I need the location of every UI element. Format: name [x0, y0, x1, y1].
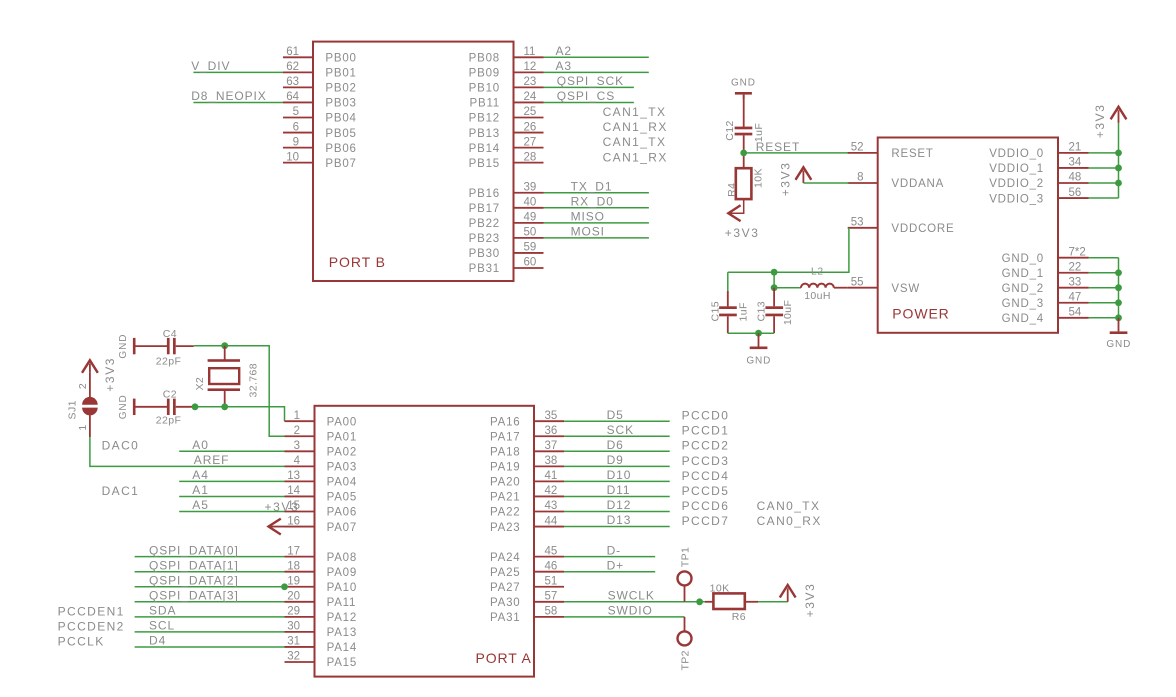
svg-text:+3V3: +3V3 [1093, 104, 1107, 139]
svg-text:CAN1_TX: CAN1_TX [603, 135, 667, 149]
svg-text:GND: GND [731, 77, 756, 88]
svg-text:C13: C13 [756, 301, 768, 321]
pin 60 PB31 (PORT B right lower) [514, 267, 544, 269]
svg-text:58: 58 [545, 606, 558, 618]
svg-text:18: 18 [287, 560, 300, 572]
svg-text:PA25: PA25 [490, 567, 520, 579]
svg-text:31: 31 [287, 636, 300, 648]
wire R4 to +3V3 [730, 199, 744, 213]
svg-text:GND_1: GND_1 [1002, 268, 1044, 280]
svg-text:VDDIO_2: VDDIO_2 [989, 178, 1044, 190]
wire net D9 [564, 465, 670, 467]
pin 39 PB16 (PORT B right lower) [514, 192, 544, 194]
svg-text:1uF: 1uF [737, 302, 749, 321]
svg-text:GND: GND [1106, 339, 1131, 350]
svg-text:CAN0_RX: CAN0_RX [757, 514, 822, 528]
svg-text:GND_4: GND_4 [1002, 313, 1044, 325]
wire to R6 [705, 601, 713, 603]
wire net QSPI_DATA[0] [135, 556, 285, 558]
wire VDDCORE net: pin 53 down and left to caps [728, 228, 849, 272]
pin 36 PA17 (PORT A right) [534, 435, 564, 437]
svg-text:PA14: PA14 [327, 642, 357, 654]
supply +3V3 arrow right of R6 [780, 585, 796, 598]
svg-text:VDDIO_3: VDDIO_3 [989, 193, 1044, 205]
svg-text:SDA: SDA [149, 603, 176, 617]
wire VDDIO_2 to +3V3 rail [1089, 182, 1119, 184]
svg-text:62: 62 [286, 61, 299, 73]
wire net V_DIV to PB01 [193, 71, 283, 73]
svg-text:GND: GND [118, 334, 129, 359]
svg-text:D11: D11 [607, 483, 631, 497]
wire net D+ from PA25 [564, 571, 655, 573]
svg-text:PB02: PB02 [325, 83, 356, 95]
test point TP1 [678, 571, 692, 585]
pin 2 PA01 (PORT A left) [285, 435, 315, 437]
svg-text:PCCD2: PCCD2 [682, 439, 730, 453]
wire net A1 [179, 495, 284, 497]
svg-text:59: 59 [524, 242, 537, 254]
svg-text:PB08: PB08 [469, 53, 500, 65]
svg-text:DAC1: DAC1 [102, 484, 140, 498]
junction crystal top [221, 342, 228, 349]
wire net A4 [179, 480, 284, 482]
svg-text:POWER: POWER [892, 306, 949, 322]
svg-text:+3V3: +3V3 [803, 583, 817, 618]
svg-text:42: 42 [545, 485, 558, 497]
svg-text:D10: D10 [607, 468, 632, 482]
svg-text:PA20: PA20 [490, 477, 520, 489]
pin 29 PA12 (PORT A left) [285, 616, 315, 618]
pin 54 GND_4 (POWER right) [1058, 317, 1089, 319]
svg-text:PA03: PA03 [327, 462, 357, 474]
svg-text:20: 20 [287, 591, 300, 603]
svg-text:32.768: 32.768 [248, 363, 260, 398]
svg-text:45: 45 [545, 545, 558, 557]
svg-text:55: 55 [851, 276, 864, 288]
pin 53 VDDCORE (POWER left) [848, 227, 878, 229]
IC U1 POWER block body [878, 138, 1058, 333]
pin 64 PB03 (PORT B left) [283, 101, 313, 103]
crystal X2 32.768 [224, 346, 226, 360]
svg-text:54: 54 [1069, 307, 1082, 319]
svg-text:37: 37 [545, 440, 558, 452]
pin 61 PB00 (PORT B left) [283, 56, 313, 58]
svg-text:PB15: PB15 [469, 158, 500, 170]
wire GND rail down GND_0..GND_4 [1118, 258, 1120, 318]
wire net QSPI_DATA[3] [135, 601, 285, 603]
svg-text:25: 25 [524, 106, 537, 118]
wire VDDIO_1 to +3V3 rail [1089, 167, 1119, 169]
pin 59 PB30 (PORT B right lower) [514, 252, 544, 254]
svg-text:V_DIV: V_DIV [191, 59, 230, 73]
wire net SWDIO from PA31 to TP2 [564, 616, 685, 618]
svg-text:PA13: PA13 [327, 627, 357, 639]
pin 41 PA20 (PORT A right) [534, 480, 564, 482]
wire node down to VSW row [773, 272, 775, 288]
svg-text:PA00: PA00 [327, 416, 357, 428]
wire GND rail between C15 and C13 [728, 332, 774, 334]
svg-text:PB07: PB07 [325, 158, 356, 170]
svg-text:QSPI_DATA[0]: QSPI_DATA[0] [149, 543, 239, 557]
svg-text:PORT B: PORT B [329, 254, 386, 270]
pin 23 PB10 (PORT B right) [514, 86, 544, 88]
wire GND to C12 [743, 95, 745, 127]
inductor L2 10uH [801, 284, 834, 288]
svg-text:+3V3: +3V3 [725, 226, 760, 240]
svg-text:MISO: MISO [571, 209, 605, 223]
wire VDDIO_0 to +3V3 rail [1089, 152, 1119, 154]
supply +3V3 arrow above VDDANA [796, 167, 812, 180]
svg-text:+3V3: +3V3 [779, 162, 793, 197]
svg-text:28: 28 [524, 151, 537, 163]
wire net D12 [564, 511, 670, 513]
pin 48 VDDIO_2 (POWER right) [1058, 182, 1089, 184]
wire net D5 [564, 420, 670, 422]
svg-text:R4: R4 [726, 183, 738, 197]
pin 5 PB04 (PORT B left) [283, 117, 313, 119]
svg-text:TP1: TP1 [680, 547, 692, 567]
pin 1 PA00 (PORT A left) [285, 420, 315, 422]
pin 33 GND_2 (POWER right) [1058, 287, 1089, 289]
wire net MOSI from PB23 [544, 237, 649, 239]
pin 15 PA06 (PORT A left) [285, 511, 315, 513]
svg-text:46: 46 [545, 560, 558, 572]
pin 14 PA05 (PORT A left) [285, 495, 315, 497]
svg-text:PB09: PB09 [469, 68, 500, 80]
pin 17 PA08 (PORT A left) [285, 556, 315, 558]
pin 45 PA24 (PORT A right) [534, 556, 564, 558]
wire GND_3 to GND rail [1089, 302, 1119, 304]
wire net D6 [564, 450, 670, 452]
svg-text:22pF: 22pF [156, 355, 182, 367]
svg-text:PB13: PB13 [469, 128, 500, 140]
svg-text:41: 41 [545, 470, 558, 482]
svg-text:PA11: PA11 [327, 597, 357, 609]
svg-text:57: 57 [545, 591, 558, 603]
wire GND_2 to GND rail [1089, 287, 1119, 289]
wire net TX_D1 from PB16 [544, 192, 649, 194]
pin 9 PB06 (PORT B left) [283, 147, 313, 149]
wire net D- from PA24 [564, 556, 655, 558]
svg-text:QSPI_DATA[1]: QSPI_DATA[1] [149, 558, 239, 572]
pin 18 PA09 (PORT A left) [285, 571, 315, 573]
svg-text:19: 19 [287, 575, 300, 587]
pin 24 PB11 (PORT B right) [514, 101, 544, 103]
svg-text:PB22: PB22 [469, 218, 500, 230]
IC U1 PORT B block body [313, 42, 514, 281]
svg-text:PORT A: PORT A [476, 650, 532, 666]
pin 49 PB22 (PORT B right lower) [514, 222, 544, 224]
junction at VSW row [771, 284, 778, 291]
svg-text:D4: D4 [149, 634, 166, 648]
junction on +3V3 rail [1115, 150, 1122, 157]
svg-text:PB10: PB10 [469, 83, 500, 95]
svg-text:A5: A5 [192, 498, 208, 512]
svg-text:PCCD1: PCCD1 [682, 424, 730, 438]
junction on GND rail [1115, 284, 1122, 291]
svg-text:CAN1_RX: CAN1_RX [603, 150, 668, 164]
svg-text:PB01: PB01 [325, 68, 356, 80]
svg-text:RESET: RESET [756, 140, 801, 154]
svg-text:32: 32 [287, 651, 300, 663]
svg-text:PB23: PB23 [469, 233, 500, 245]
junction on +3V3 rail [1115, 165, 1122, 172]
svg-text:10uH: 10uH [804, 290, 831, 302]
wire net QSPI_DATA[2] [135, 586, 285, 588]
wire GND to C2 [136, 406, 168, 408]
svg-text:VSW: VSW [891, 283, 920, 295]
junction crystal bottom [221, 403, 228, 410]
pin 6 PB05 (PORT B left) [283, 132, 313, 134]
svg-text:SWDIO: SWDIO [608, 603, 653, 617]
svg-text:GND_3: GND_3 [1002, 298, 1044, 310]
wire GND_0 to GND rail [1089, 257, 1119, 259]
solder jumper SJ1 [82, 397, 98, 405]
svg-text:PB04: PB04 [325, 113, 356, 125]
svg-text:PA24: PA24 [490, 552, 520, 564]
wire net D10 [564, 480, 670, 482]
svg-text:56: 56 [1069, 187, 1082, 199]
svg-text:A0: A0 [192, 438, 208, 452]
svg-text:44: 44 [545, 515, 558, 527]
svg-text:PA06: PA06 [327, 507, 357, 519]
svg-text:47: 47 [1069, 291, 1082, 303]
svg-text:PA10: PA10 [327, 582, 357, 594]
pin 42 PA21 (PORT A right) [534, 495, 564, 497]
svg-text:38: 38 [545, 455, 558, 467]
capacitor C13 10uF [773, 288, 775, 307]
svg-text:D6: D6 [607, 438, 624, 452]
svg-text:PCCD3: PCCD3 [682, 454, 730, 468]
wire net D11 [564, 495, 670, 497]
svg-text:D5: D5 [607, 408, 624, 422]
pin 27 PB14 (PORT B right) [514, 147, 544, 149]
pin 25 PB12 (PORT B right) [514, 117, 544, 119]
pin 3 PA02 (PORT A left) [285, 450, 315, 452]
wire net A3 from PB09 [544, 71, 649, 73]
svg-text:48: 48 [1069, 172, 1082, 184]
svg-text:D12: D12 [607, 498, 632, 512]
svg-text:PA05: PA05 [327, 492, 357, 504]
wire net SCL [135, 631, 285, 633]
capacitor C15 1uF [727, 272, 729, 306]
wire net A0 [179, 450, 284, 452]
svg-text:64: 64 [286, 91, 299, 103]
svg-text:A2: A2 [556, 44, 572, 58]
junction node RESET [740, 150, 747, 157]
pin 4 PA03 (PORT A left) [285, 465, 315, 467]
svg-text:PCCDEN2: PCCDEN2 [58, 619, 125, 633]
svg-text:21: 21 [1069, 142, 1082, 154]
pin 47 GND_3 (POWER right) [1058, 302, 1089, 304]
junction SWCLK node [696, 598, 703, 605]
supply +3V3 (left arrow) below R4 [728, 205, 740, 221]
svg-text:PCCDEN1: PCCDEN1 [58, 604, 125, 618]
pin 21 VDDIO_0 (POWER right) [1058, 152, 1089, 154]
wire net QSPI_CS from PB011 [544, 101, 634, 103]
wire GND to C4 [136, 345, 168, 347]
svg-text:10: 10 [286, 151, 299, 163]
svg-text:C12: C12 [724, 120, 736, 140]
svg-text:7*2: 7*2 [1069, 246, 1086, 258]
wire +3V3 to SJ1 pin 2 [89, 373, 91, 398]
svg-text:PB31: PB31 [469, 263, 500, 275]
svg-text:22pF: 22pF [156, 414, 182, 426]
svg-text:PCCD6: PCCD6 [682, 499, 730, 513]
svg-text:53: 53 [851, 217, 864, 229]
svg-text:29: 29 [287, 606, 300, 618]
svg-text:52: 52 [851, 142, 864, 154]
svg-text:PB03: PB03 [325, 98, 356, 110]
wire +3V3 rail down VDDIO_0..VDDIO_3 [1118, 123, 1120, 198]
wire GND_4 to GND rail [1089, 317, 1119, 319]
svg-text:PCCD4: PCCD4 [682, 469, 730, 483]
svg-text:CAN0_TX: CAN0_TX [757, 499, 821, 513]
pin 11 PB08 (PORT B right) [514, 56, 544, 58]
svg-text:51: 51 [545, 575, 558, 587]
svg-text:39: 39 [524, 181, 537, 193]
svg-text:27: 27 [524, 136, 537, 148]
svg-text:PA27: PA27 [490, 582, 520, 594]
svg-text:PCCD7: PCCD7 [682, 514, 730, 528]
pin 10 PB07 (PORT B left) [283, 162, 313, 164]
pin 52 RESET (POWER left) [848, 152, 878, 154]
svg-text:PA15: PA15 [327, 657, 357, 669]
wire C2 to crystal bottom node [176, 406, 194, 408]
svg-text:2: 2 [77, 383, 89, 389]
GND symbol below caps [758, 333, 760, 346]
svg-text:PB30: PB30 [469, 248, 500, 260]
svg-text:CAN1_RX: CAN1_RX [603, 120, 668, 134]
wire GND_1 to GND rail [1089, 272, 1119, 274]
capacitor C4 22pF [167, 338, 170, 354]
svg-text:TP2: TP2 [680, 650, 692, 670]
pin 44 PA23 (PORT A right) [534, 526, 564, 528]
svg-text:D9: D9 [607, 453, 624, 467]
pin 46 PA25 (PORT A right) [534, 571, 564, 573]
svg-text:GND_2: GND_2 [1002, 283, 1044, 295]
svg-text:SCL: SCL [149, 619, 175, 633]
svg-text:PA18: PA18 [490, 447, 520, 459]
svg-text:63: 63 [286, 76, 299, 88]
pin 26 PB13 (PORT B right) [514, 132, 544, 134]
pin 50 PB23 (PORT B right lower) [514, 237, 544, 239]
GND symbol left of C2 [133, 399, 136, 415]
wire C4 to crystal top node [176, 345, 194, 347]
svg-text:+3V3: +3V3 [265, 500, 300, 514]
wire L2 to POWER pin 55 VSW [834, 287, 848, 289]
svg-text:33: 33 [1069, 276, 1082, 288]
wire net MISO from PB22 [544, 222, 649, 224]
svg-text:D8_NEOPIX: D8_NEOPIX [191, 89, 266, 103]
svg-text:L2: L2 [811, 267, 824, 278]
pin 56 VDDIO_3 (POWER right) [1058, 197, 1089, 199]
svg-text:13: 13 [287, 470, 300, 482]
svg-text:40: 40 [524, 197, 537, 209]
svg-text:PCCD0: PCCD0 [682, 409, 730, 423]
supply +3V3 arrow above SJ1 [82, 360, 98, 373]
GND symbol above C12 [743, 95, 745, 99]
svg-text:61: 61 [286, 46, 299, 58]
pin 57 PA30 (PORT A right) [534, 601, 564, 603]
wire net QSPI_SCK from PB010 [544, 86, 634, 88]
svg-text:17: 17 [287, 545, 300, 557]
svg-text:VDDIO_1: VDDIO_1 [989, 163, 1044, 175]
svg-text:VDDIO_0: VDDIO_0 [989, 148, 1044, 160]
svg-text:10uF: 10uF [782, 300, 794, 326]
svg-text:1: 1 [294, 410, 300, 422]
junction GND tap [755, 330, 762, 337]
wire net XIN: crystal bottom to PA00 [194, 407, 285, 421]
svg-text:8: 8 [857, 172, 863, 184]
svg-text:D-: D- [607, 543, 621, 557]
svg-text:PA04: PA04 [327, 477, 357, 489]
svg-text:PB16: PB16 [469, 188, 500, 200]
svg-text:23: 23 [524, 76, 537, 88]
pin 38 PA19 (PORT A right) [534, 465, 564, 467]
svg-text:PB12: PB12 [469, 113, 500, 125]
junction on GND rail [1115, 314, 1122, 321]
resistor R4 10K [736, 168, 752, 199]
svg-text:MOSI: MOSI [571, 225, 605, 239]
svg-text:5: 5 [293, 106, 299, 118]
junction on +3V3 rail [1115, 180, 1122, 187]
svg-text:36: 36 [545, 425, 558, 437]
junction at C2 wire end [192, 403, 199, 410]
svg-text:PCCD5: PCCD5 [682, 484, 730, 498]
svg-text:A3: A3 [556, 59, 572, 73]
wire net A2 from PB08 [544, 56, 649, 58]
svg-text:10K: 10K [752, 168, 764, 188]
pin 19 PA10 (PORT A left) [285, 586, 315, 588]
svg-text:PA07: PA07 [327, 522, 357, 534]
svg-text:QSPI_DATA[3]: QSPI_DATA[3] [149, 588, 239, 602]
pin 31 PA14 (PORT A left) [285, 646, 315, 648]
svg-text:22: 22 [1069, 261, 1082, 273]
wire SJ1 pin 1 down [89, 415, 91, 437]
resistor R6 10K [713, 593, 744, 609]
wire VDDIO_3 to +3V3 rail [1089, 197, 1119, 199]
pin 40 PB17 (PORT B right lower) [514, 207, 544, 209]
svg-text:12: 12 [524, 61, 537, 73]
pin 51 PA27 (PORT A right) [534, 586, 564, 588]
svg-text:PA16: PA16 [490, 416, 520, 428]
svg-text:PA12: PA12 [327, 612, 357, 624]
pin 32 PA15 (PORT A left) [285, 661, 315, 663]
IC U1 PORT A block body [315, 406, 535, 677]
svg-text:VDDANA: VDDANA [891, 178, 944, 190]
pin 30 PA13 (PORT A left) [285, 631, 315, 633]
svg-text:PA01: PA01 [327, 431, 357, 443]
svg-text:GND_0: GND_0 [1002, 253, 1044, 265]
svg-text:RESET: RESET [891, 148, 933, 160]
svg-text:RX_D0: RX_D0 [571, 194, 614, 208]
wire R6 to +3V3 [745, 601, 758, 603]
wire net D13 [564, 526, 670, 528]
pin 34 VDDIO_1 (POWER right) [1058, 167, 1089, 169]
svg-text:PA02: PA02 [327, 447, 357, 459]
svg-text:C15: C15 [709, 301, 721, 321]
svg-text:60: 60 [524, 257, 537, 269]
wire +3V3 to POWER pin 8 VDDANA [803, 182, 849, 184]
GND symbol below POWER right rail [1118, 318, 1120, 332]
svg-text:14: 14 [287, 485, 300, 497]
test point TP2 [678, 631, 692, 645]
svg-text:PA30: PA30 [490, 597, 520, 609]
svg-text:SCK: SCK [607, 423, 634, 437]
pin 35 PA16 (PORT A right) [534, 420, 564, 422]
svg-text:50: 50 [524, 227, 537, 239]
